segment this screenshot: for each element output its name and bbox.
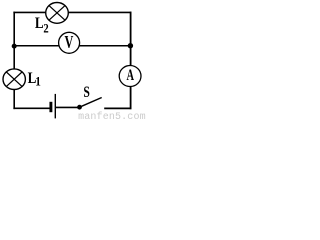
svg-text:A: A: [127, 66, 135, 84]
wire left vertical lower (lamp L1 down to bottom-left corner): [13, 89, 15, 109]
svg-text:L: L: [35, 15, 44, 32]
wire right vertical upper (top-right corner down to ammeter): [130, 12, 132, 66]
lamp L1 circle: [3, 69, 25, 90]
lamp L2 circle: [46, 3, 69, 24]
lamp L1 cross: [6, 72, 22, 86]
wire top-right horizontal (lamp L2 to top-right corner): [68, 11, 131, 13]
wire left vertical upper (top-left corner down to lamp L1): [13, 12, 15, 70]
svg-text:manfen5.com: manfen5.com: [78, 111, 146, 120]
node junction right (wire junction dot): [128, 43, 133, 48]
switch S pivot dot: [77, 105, 82, 110]
lamp L2 cross: [49, 6, 65, 20]
svg-text:V: V: [65, 34, 74, 53]
svg-text:S: S: [83, 83, 90, 100]
node junction left (wire junction dot): [12, 44, 17, 49]
wire middle-right (voltmeter to right junction): [79, 45, 130, 47]
svg-text:2: 2: [43, 22, 48, 36]
wire battery-to-switch: [56, 106, 79, 108]
wire top-left horizontal (top-left corner to lamp L2): [13, 11, 45, 13]
battery positive plate (long thin): [54, 94, 56, 119]
wire middle-left (left junction to voltmeter): [14, 45, 59, 47]
battery negative plate (short thick): [49, 102, 52, 112]
voltmeter U1 circle: [59, 32, 80, 53]
ammeter U2 circle: [119, 66, 141, 87]
wire right vertical lower (ammeter down to bottom-right corner): [130, 87, 132, 110]
wire switch-to-corner (bottom-right): [104, 107, 131, 109]
switch S lever: [80, 98, 102, 108]
wire bottom-left (bottom-left corner to battery): [13, 107, 49, 109]
svg-text:1: 1: [35, 74, 41, 89]
